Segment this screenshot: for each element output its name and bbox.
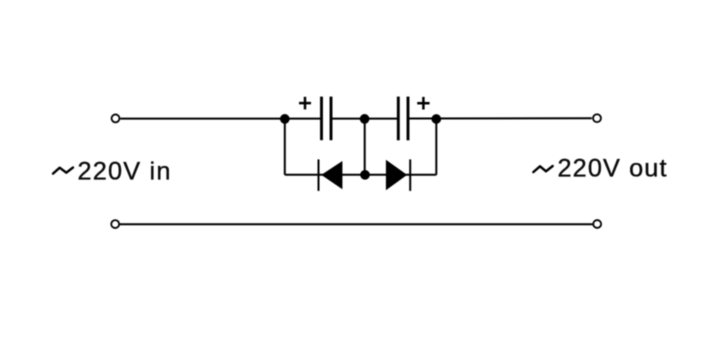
svg-text:220V out: 220V out [558,155,667,183]
svg-text:220V in: 220V in [78,157,171,185]
